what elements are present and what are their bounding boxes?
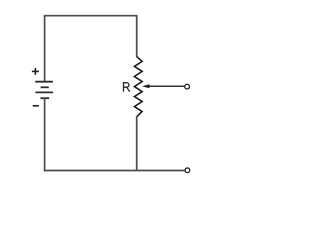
terminal circle top [185, 84, 190, 89]
wiper arrowhead [142, 84, 150, 88]
wire right lower vertical [136, 117, 138, 171]
battery plus label [32, 68, 39, 75]
wire left upper vertical [44, 15, 46, 81]
wire top horizontal [44, 15, 137, 17]
battery V1 [35, 82, 53, 99]
label R [124, 83, 130, 92]
potentiometer R zigzag [134, 57, 142, 117]
battery minus label [33, 105, 39, 107]
wire bottom horizontal [44, 170, 185, 172]
wire right upper vertical [136, 15, 138, 57]
terminal circle bottom [185, 168, 190, 173]
wiper wire [148, 85, 185, 87]
wire left lower vertical [44, 98, 46, 171]
